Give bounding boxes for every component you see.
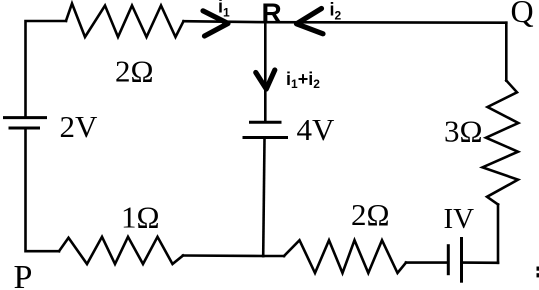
svg-text:2Ω: 2Ω: [351, 197, 390, 232]
svg-text:2Ω: 2Ω: [115, 54, 154, 89]
svg-text:1Ω: 1Ω: [121, 200, 160, 235]
wire middle vertical lower (4V battery down to bottom wire): [263, 139, 264, 256]
wire 2Ω bottom to battery IV: [406, 261, 447, 264]
arrow i2 (current into node R from right): [297, 9, 324, 34]
wire middle vertical upper (R down to 4V battery): [264, 22, 267, 121]
battery 2V long plate: [3, 116, 47, 119]
svg-text:IV: IV: [444, 203, 475, 235]
battery 2V short plate: [9, 127, 41, 130]
stray mark upper at right edge: [537, 267, 539, 271]
wire middle junction to 2Ω bottom: [263, 255, 284, 258]
wire 1Ω to middle junction: [183, 254, 263, 257]
svg-text:2V: 2V: [60, 109, 99, 144]
wire left vertical upper (top-left corner down to 2V battery): [26, 21, 67, 116]
arrow i1+i2 (current down middle branch): [256, 70, 275, 89]
battery IV short plate: [447, 244, 450, 275]
stray mark lower at right edge: [537, 273, 539, 277]
resistor 2Ω top zigzag: [66, 4, 184, 38]
battery IV long plate: [460, 237, 463, 283]
wire 2Ω to node R: [184, 21, 267, 22]
svg-text:4V: 4V: [297, 112, 336, 147]
battery 4V long plate: [243, 136, 289, 139]
wire right vertical lower (3Ω down to bottom wire): [497, 205, 500, 263]
battery 4V short plate: [249, 121, 282, 124]
wire node R to corner Q: [266, 21, 506, 24]
wire right vertical upper (Q down to 3Ω): [505, 23, 508, 81]
resistor 3Ω right zigzag: [483, 81, 519, 205]
resistor 2Ω bottom zigzag: [284, 240, 406, 273]
wire battery IV to right vertical: [463, 261, 498, 264]
wire left vertical lower (2V battery down to corner P) and bottom-left run: [26, 130, 60, 252]
arrow i1 (current into node R from left): [203, 11, 228, 36]
svg-text:Q: Q: [511, 0, 534, 29]
svg-text:R: R: [262, 0, 282, 28]
resistor 1Ω bottom zigzag: [59, 237, 183, 264]
svg-text:P: P: [14, 259, 33, 290]
svg-text:3Ω: 3Ω: [444, 114, 483, 149]
